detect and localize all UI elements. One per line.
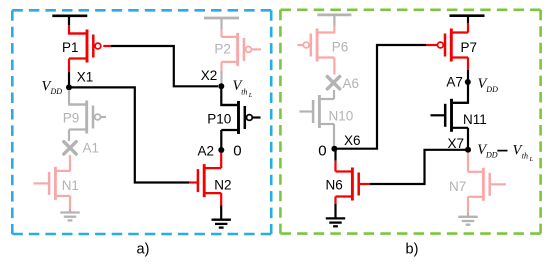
svg-text:N6: N6 xyxy=(326,178,343,193)
svg-text:0: 0 xyxy=(233,142,241,159)
svg-text:P2: P2 xyxy=(214,42,231,57)
svg-text:X1: X1 xyxy=(77,70,94,85)
svg-text:P1: P1 xyxy=(62,40,79,55)
svg-text:A2: A2 xyxy=(198,143,215,158)
svg-text:N1: N1 xyxy=(62,178,79,193)
svg-text:DD: DD xyxy=(485,85,498,94)
svg-text:A1: A1 xyxy=(83,141,100,156)
svg-text:P6: P6 xyxy=(332,40,349,55)
svg-text:0: 0 xyxy=(318,142,326,159)
svg-text:N7: N7 xyxy=(449,179,466,194)
svg-text:X6: X6 xyxy=(344,133,361,148)
svg-text:N11: N11 xyxy=(463,112,487,127)
svg-text:P7: P7 xyxy=(461,40,478,55)
svg-text:N2: N2 xyxy=(214,178,231,193)
svg-text:a): a) xyxy=(137,242,150,258)
svg-text:N10: N10 xyxy=(329,109,354,124)
svg-text:X2: X2 xyxy=(201,68,218,83)
svg-text:P10: P10 xyxy=(207,112,231,127)
svg-text:th: th xyxy=(522,151,528,160)
svg-text:b): b) xyxy=(406,242,419,258)
svg-text:L: L xyxy=(248,92,253,99)
svg-text:A7: A7 xyxy=(446,74,463,89)
svg-text:A6: A6 xyxy=(343,76,360,91)
svg-text:P9: P9 xyxy=(63,111,80,126)
svg-text:L: L xyxy=(529,156,534,163)
svg-text:DD: DD xyxy=(485,151,498,160)
svg-text:DD: DD xyxy=(50,87,63,96)
svg-text:th: th xyxy=(241,88,247,97)
